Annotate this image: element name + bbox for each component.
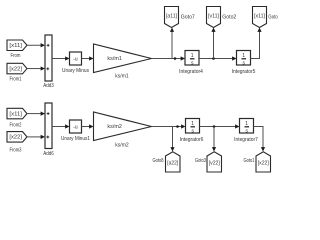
svg-text:From3: From3 [10,147,22,153]
wire Unary Minus1 to gain [82,124,94,128]
goto tag Goto1 [x22] [244,152,271,172]
svg-text:Goto3: Goto3 [195,158,206,164]
wire Integrator4 to Integrator5 [199,56,237,60]
svg-text:Goto2: Goto2 [222,14,236,20]
svg-text:[a11]: [a11] [166,13,178,19]
wire From3 to Add6 [27,135,45,139]
svg-text:-u: -u [73,56,78,62]
wire branch down to Goto8 [170,127,174,152]
svg-text:[x22]: [x22] [258,160,270,166]
wire gain to Integrator4 [152,56,186,60]
svg-text:Integrator6: Integrator6 [180,137,204,143]
svg-text:[x22]: [x22] [9,135,22,141]
integrator Integrator5 [232,51,256,76]
svg-text:1: 1 [242,53,245,59]
wire From1 to Add3 [27,66,45,70]
svg-text:Goto7: Goto7 [181,14,195,20]
svg-text:1: 1 [245,121,248,127]
svg-text:Goto8: Goto8 [153,158,164,164]
svg-text:Integrator5: Integrator5 [232,69,256,75]
svg-text:1: 1 [191,53,194,59]
wire branch up to Goto2 [211,28,215,59]
svg-text:Goto: Goto [268,14,278,20]
svg-text:Unary Minus1: Unary Minus1 [61,136,90,142]
svg-text:[v11]: [v11] [208,13,220,19]
from tag From3 [x22] [7,132,27,154]
svg-text:ks/m2: ks/m2 [107,124,122,130]
wire From2 to Add6 [27,112,45,116]
svg-text:Add3: Add3 [43,83,54,89]
svg-text:1: 1 [191,121,194,127]
sum block Add6 [43,103,54,157]
wire Integrator6 to Integrator7 [200,124,240,128]
goto tag Goto7 [a11] [165,7,196,28]
svg-text:ks/m1: ks/m1 [107,56,122,62]
svg-text:[x22]: [x22] [9,66,22,72]
svg-text:ks/m2: ks/m2 [115,142,129,148]
svg-text:ks/m1: ks/m1 [115,73,129,79]
goto tag Goto [x11] [253,7,278,28]
svg-text:From: From [11,53,21,59]
svg-text:[x11]: [x11] [254,13,266,19]
block Unary Minus1 [61,120,90,142]
from tag From1 [x22] [7,63,27,82]
gain block ks/m2 [94,112,152,148]
wire Integrator5 to Goto [251,28,262,59]
svg-text:-u: -u [73,124,78,130]
from tag From2 [x11] [7,108,27,128]
sum block Add3 [43,35,54,89]
block Unary Minus [62,52,89,74]
integrator Integrator4 [179,51,203,76]
wire gain to Integrator6 [152,124,186,128]
goto tag Goto3 [v22] [195,152,222,172]
goto tag Goto2 [v11] [207,7,237,28]
svg-text:[a22]: [a22] [167,160,179,166]
wire branch up to Goto7 [170,28,174,59]
wire From to Add3 [27,43,45,47]
svg-text:Goto1: Goto1 [244,158,255,164]
gain block ks/m1 [94,44,152,79]
svg-text:From1: From1 [10,76,22,82]
svg-text:Integrator7: Integrator7 [234,137,258,143]
integrator Integrator7 [234,119,258,144]
integrator Integrator6 [180,119,204,144]
wire Unary Minus to gain [82,56,94,60]
wire Add6 to Unary Minus1 [52,124,70,128]
wire Add3 to Unary Minus [52,56,70,60]
goto tag Goto8 [a22] [153,152,181,172]
svg-text:[x11]: [x11] [9,43,22,49]
svg-text:Add6: Add6 [43,151,54,157]
wire Integrator7 to Goto1 [254,127,266,152]
svg-text:[x11]: [x11] [9,111,22,117]
svg-text:Integrator4: Integrator4 [179,69,203,75]
from tag From [x11] [7,40,27,59]
svg-text:From2: From2 [10,122,22,128]
svg-text:[v22]: [v22] [209,160,221,166]
svg-text:Unary Minus: Unary Minus [62,68,89,74]
wire branch down to Goto3 [212,127,216,152]
